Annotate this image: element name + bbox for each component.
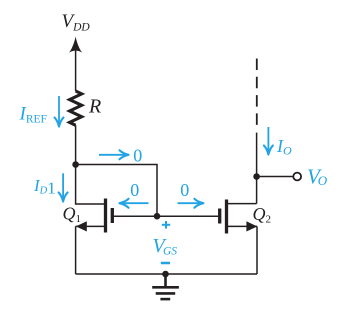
wire node A down to Q1 drain	[76, 165, 106, 205]
node G junction dot	[154, 213, 161, 220]
svg-text:R: R	[88, 96, 101, 118]
wire output node up (solid)	[256, 133, 258, 177]
wire Q2 source down to ground bus	[256, 226, 258, 274]
node ground junction dot	[162, 271, 169, 278]
transistor Q2	[157, 200, 257, 234]
current ID1 arrow	[59, 173, 68, 201]
svg-text:VDD: VDD	[62, 11, 91, 34]
svg-text:0: 0	[180, 180, 189, 200]
dashed wire ideal current source	[256, 59, 258, 127]
wire ground bus	[76, 273, 257, 275]
resistor R	[70, 91, 82, 125]
svg-text:IO: IO	[276, 136, 292, 158]
current 0 arrow (top)	[99, 150, 129, 159]
terminal VO open circle	[293, 173, 301, 181]
node VO junction dot	[253, 173, 260, 180]
svg-text:0: 0	[130, 180, 139, 200]
current 0 arrow (gate right)	[178, 199, 204, 208]
svg-text:O: O	[318, 173, 328, 188]
svg-text:Q2: Q2	[253, 204, 272, 226]
svg-text:IREF: IREF	[19, 104, 47, 126]
transistor Q1	[76, 199, 157, 233]
svg-text:Q1: Q1	[63, 204, 82, 226]
current IREF arrow	[55, 96, 64, 127]
svg-text:ID1: ID1	[33, 176, 56, 198]
label minus (VGS minus)	[161, 262, 170, 265]
wire resistor to node A	[75, 125, 77, 164]
current 0 arrow (gate left)	[120, 199, 149, 208]
wire Q2 drain up to output node	[256, 177, 258, 204]
wire Q1 source down to ground bus	[75, 226, 77, 274]
current IO arrow	[264, 127, 273, 155]
node A junction dot	[72, 161, 79, 168]
wire node A right and down to gate node	[76, 165, 157, 217]
svg-text:0: 0	[133, 145, 142, 165]
svg-text:GS: GS	[163, 245, 177, 257]
label + (VGS plus)	[162, 221, 170, 229]
ground symbol	[152, 274, 179, 299]
wire output node to VO terminal	[257, 176, 294, 178]
power VDD arrow	[69, 37, 82, 92]
